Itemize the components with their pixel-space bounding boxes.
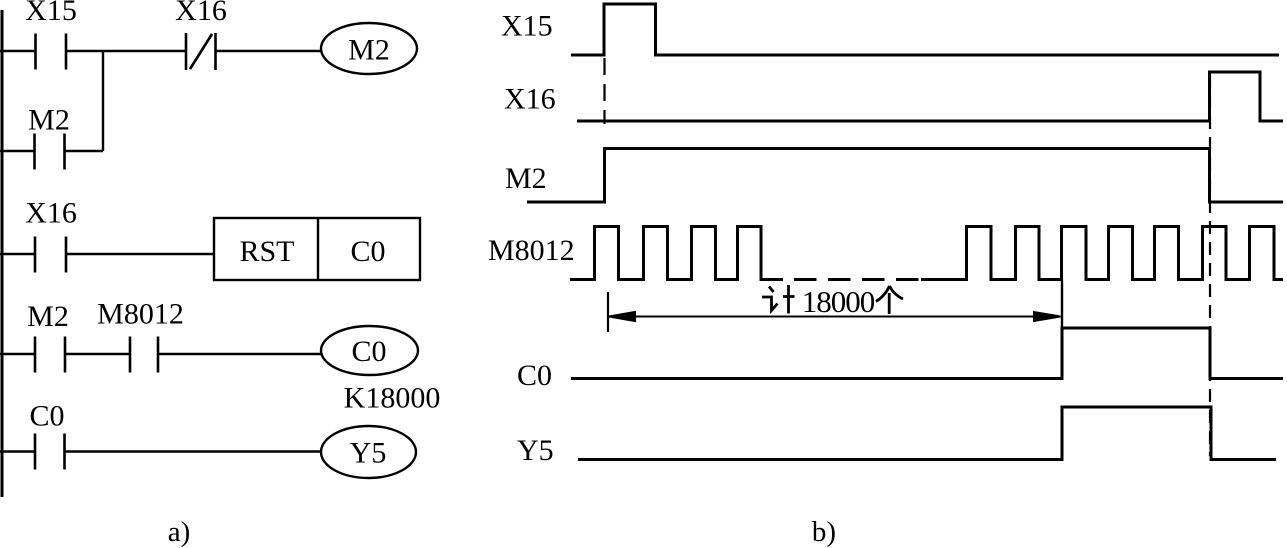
- wire rung4 M2 to M8012: [65, 353, 130, 355]
- svg-text:C0: C0: [29, 400, 64, 433]
- svg-text:M2: M2: [505, 162, 547, 195]
- svg-text:C0: C0: [351, 335, 386, 368]
- wire rung5 rail to C0 contact: [0, 450, 35, 452]
- contact M8012 (NO): [130, 337, 158, 373]
- svg-text:X16: X16: [504, 83, 556, 116]
- wire rung3 X16 to RST box: [66, 253, 214, 255]
- svg-text:M2: M2: [27, 300, 69, 333]
- wire rung1 X16 to coil M2: [216, 50, 322, 52]
- svg-text:RST: RST: [239, 235, 294, 268]
- svg-text:18000: 18000: [802, 284, 875, 319]
- svg-text:M2: M2: [28, 104, 70, 137]
- svg-text:X16: X16: [25, 197, 77, 230]
- wire branch vertical junction: [102, 51, 104, 151]
- contact X16 (NC): [186, 33, 216, 70]
- wire rung4 M8012 to coil C0: [158, 353, 321, 355]
- dashed timeline at X16 pulse / reset: [1209, 74, 1211, 456]
- dashed timeline at X15 pulse start: [603, 58, 605, 124]
- svg-text:Y5: Y5: [350, 437, 387, 470]
- waveform X15: [571, 4, 1279, 55]
- wire rung5 C0 to coil Y5: [65, 450, 322, 452]
- count-complete vertical line: [1061, 280, 1063, 379]
- coil M2: [321, 23, 417, 74]
- waveform M2: [527, 149, 1283, 203]
- waveform M8012 dashed idle segment: [794, 278, 920, 281]
- svg-text:M2: M2: [348, 34, 390, 67]
- waveform C0: [571, 328, 1283, 379]
- dimension arrow 计18000个: [609, 312, 1061, 321]
- left power rail: [1, 10, 4, 497]
- svg-text:X16: X16: [175, 0, 227, 27]
- contact M2 (NO, parallel branch): [35, 134, 65, 170]
- waveform M8012 first pulse group: [570, 227, 783, 280]
- glyph 个: [876, 286, 903, 314]
- contact C0 (NO): [35, 434, 65, 470]
- wire rung2 rail to M2 contact: [0, 150, 34, 152]
- wire rung1 X15 to X16: [66, 50, 186, 52]
- svg-text:X15: X15: [501, 10, 553, 43]
- wire rung1 rail to X15 contact: [0, 50, 35, 52]
- coil C0 counter: [321, 326, 418, 375]
- svg-text:M8012: M8012: [488, 234, 575, 267]
- measuring tick at count start: [607, 292, 609, 332]
- svg-text:C0: C0: [350, 235, 385, 268]
- annotation text 计18000个 (CJK drawn as paths): [762, 284, 903, 319]
- wire rung4 rail to M2 contact: [0, 353, 35, 355]
- coil Y5: [321, 426, 416, 478]
- svg-text:Y5: Y5: [517, 434, 554, 467]
- waveform Y5: [578, 407, 1276, 460]
- svg-text:a): a): [168, 516, 191, 548]
- waveform X16: [577, 72, 1283, 121]
- contact X16 rung3 (NO): [35, 237, 66, 273]
- contact X15 (NO): [36, 34, 67, 70]
- glyph 计: [762, 285, 795, 314]
- svg-text:X15: X15: [25, 0, 77, 27]
- wire rung3 rail to X16 contact: [0, 253, 35, 255]
- contact M2 rung4 (NO): [35, 337, 65, 373]
- svg-text:b): b): [812, 516, 836, 548]
- svg-text:C0: C0: [517, 359, 552, 392]
- svg-text:M8012: M8012: [97, 298, 184, 331]
- svg-text:K18000: K18000: [344, 382, 441, 415]
- waveform M8012 second pulse group: [921, 227, 1283, 280]
- RST C0 instruction box: [214, 218, 420, 280]
- wire rung2 M2 contact to branch: [65, 150, 104, 152]
